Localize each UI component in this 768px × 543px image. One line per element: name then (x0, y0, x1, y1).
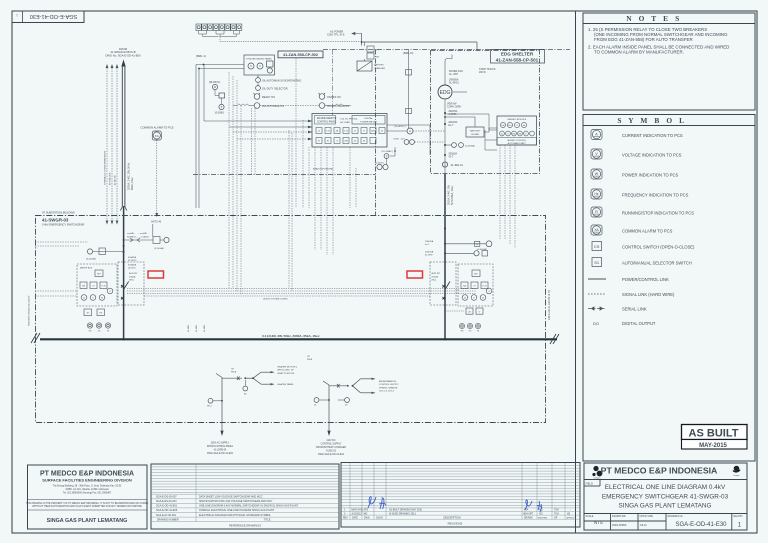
symbol legend: current indication A (591, 130, 602, 140)
svg-text:(NC): (NC) (432, 280, 437, 282)
svg-text:PR-1: PR-1 (207, 406, 213, 408)
svg-text:CHK'D VRW: CHK'D VRW (640, 515, 654, 518)
svg-text:T+N: T+N (344, 131, 348, 133)
EDG CT node 2 (444, 123, 446, 125)
svg-text:2000A: 2000A (432, 275, 439, 278)
incoming feeder arrow (121, 60, 125, 67)
svg-text:ON/OFF OS: ON/OFF OS (327, 96, 341, 99)
svg-text:BATTERY: BATTERY (374, 64, 384, 67)
svg-text:41-SWGR-03: 41-SWGR-03 (42, 217, 69, 222)
svg-text:230V AC SUPPLY: 230V AC SUPPLY (211, 442, 230, 445)
svg-text:←LOAD(T): ←LOAD(T) (139, 235, 149, 238)
svg-text:2000/5A: 2000/5A (449, 153, 458, 156)
svg-text:HYDRAULIC GUIDE PERMISSIVE: HYDRAULIC GUIDE PERMISSIVE (104, 150, 107, 185)
svg-text:(3-2000A): (3-2000A) (86, 258, 96, 261)
fuse F1 on panel feed (408, 50, 410, 128)
symbol legend: signal link dashed line (588, 293, 606, 295)
svg-text:ELECTRICAL ONE LINE DIAGRAM 0.: ELECTRICAL ONE LINE DIAGRAM 0.4kV (605, 484, 726, 491)
svg-text:METER BOX: METER BOX (80, 268, 93, 270)
bus cable tags (188, 324, 206, 332)
red markup box right (407, 271, 423, 278)
circuit 1 meter (243, 386, 248, 391)
heater load arrows (271, 371, 275, 373)
svg-text:SGA CMC3 SGA-E-OD-41-E07: SGA CMC3 SGA-E-OD-41-E07 (28, 295, 31, 326)
switch: edg auto/man os (319, 103, 325, 109)
svg-text:CS: CS (594, 244, 600, 249)
svg-text:EL-T: EL-T (449, 125, 455, 127)
svg-text:41-DB2: 41-DB2 (196, 324, 198, 332)
ACB B2 breaker (442, 282, 450, 340)
genset module (497, 116, 537, 145)
svg-text:IS-SUED DRAWING 2013: IS-SUED DRAWING 2013 (389, 512, 416, 515)
svg-text:(0-500K): (0-500K) (215, 113, 224, 115)
svg-text:SH: SH (376, 57, 379, 59)
svg-text:energies: energies (594, 478, 601, 480)
svg-text:600A/5A: 600A/5A (128, 256, 137, 259)
svg-text:SIGNAL LINK (HARD WIRE): SIGNAL LINK (HARD WIRE) (622, 292, 675, 297)
svg-text:CONTROL PANEL: CONTROL PANEL (317, 120, 337, 123)
bus end break marks (31, 333, 559, 344)
symbol legend: selector switch S1 (592, 258, 602, 267)
svg-text:GENSET CONTROL: GENSET CONTROL (507, 140, 527, 142)
svg-text:MV: MV (97, 274, 101, 276)
svg-text:ACI: ACI (539, 512, 543, 515)
svg-text:110V DC: 110V DC (326, 440, 335, 442)
svg-text:(0-3000A): (0-3000A) (465, 145, 475, 148)
svg-text:Hz: Hz (523, 125, 525, 127)
svg-text:· BATTERY ·: · BATTERY · (469, 130, 482, 133)
svg-text:MAY14-HD: MAY14-HD (352, 509, 364, 512)
svg-text:PT MEDCO E&P INDONESIA: PT MEDCO E&P INDONESIA (601, 465, 718, 475)
svg-text:41-SWGR-03 BUS-B: 41-SWGR-03 BUS-B (110, 50, 135, 54)
svg-text:AUTO/MAN START: AUTO/MAN START (508, 142, 527, 145)
svg-text:41-DB3: 41-DB3 (204, 324, 206, 332)
switch: ready os (254, 94, 260, 100)
svg-text:xxxkVA→: xxxkVA→ (127, 232, 136, 235)
svg-text:AUG2013: AUG2013 (352, 512, 363, 515)
svg-text:COMMON ALARM TO PCS: COMMON ALARM TO PCS (622, 229, 673, 234)
symbol legend: control switch CS (592, 242, 602, 251)
svg-text:M: M (87, 313, 89, 315)
svg-text:OP.: OP. (554, 517, 558, 519)
lemigas logo right (733, 466, 741, 473)
svg-text:E30-E-OD-41-E30 25 13 FS: E30-E-OD-41-E30 25 13 FS (548, 290, 551, 320)
panel CP-502 right boundary (375, 50, 377, 216)
svg-text:Tel. 021 29954000 (Hunting): Tel. 021 29954000 (Hunting) Fax. 021 299… (63, 492, 112, 495)
svg-text:SERIAL LINK: SERIAL LINK (622, 306, 647, 311)
svg-text:41-T: 41-T (449, 157, 454, 159)
svg-text:S Y M B O L: S Y M B O L (617, 116, 686, 125)
svg-text:Hz: Hz (595, 192, 599, 196)
svg-text:NTS: NTS (594, 520, 603, 525)
symbol legend: running/stop indication R (591, 207, 602, 217)
svg-text:COMMON ALARM TO PCS: COMMON ALARM TO PCS (141, 126, 174, 130)
svg-text:SGA-E-OD-41-E01: SGA-E-OD-41-E01 (156, 505, 178, 508)
ACB B2 metering cubicle (458, 264, 493, 306)
switchgear enclosure boundary (36, 216, 546, 423)
left margin reference labels (28, 295, 31, 326)
symbol legend: common alarm XA (591, 225, 602, 235)
svg-text:SGA-E-OD-41-E30: SGA-E-OD-41-E30 (30, 13, 78, 19)
ACB B2 CT (445, 252, 474, 254)
svg-text:W: W (482, 298, 484, 300)
svg-text:(DL-RSVC): (DL-RSVC) (395, 126, 406, 128)
svg-text:EMERGENCY SWITCHGEAR 41-SWGR-0: EMERGENCY SWITCHGEAR 41-SWGR-03 (602, 493, 729, 500)
svg-text:DRAWING NUMBER: DRAWING NUMBER (157, 518, 179, 521)
svg-text:XA: XA (155, 134, 159, 138)
ACB B1 breaker (121, 282, 129, 340)
svg-text:ANTI-COND. SP: ANTI-COND. SP (278, 369, 295, 372)
symbol legend: frequency indication Hz (591, 189, 602, 199)
svg-text:REV/SH: REV/SH (734, 515, 743, 518)
switch: on/off os (319, 94, 325, 100)
signal risers from panel to switchgear (229, 58, 356, 294)
svg-text:SGA-E-OD-41-E06: SGA-E-OD-41-E06 (156, 509, 178, 512)
svg-text:AIR APPARATUS: AIR APPARATUS (379, 380, 397, 383)
genset module wiring (445, 114, 497, 150)
panel lamp/relay row 2 (316, 138, 376, 144)
interlock signal wires (107, 68, 117, 220)
panel 502 label (278, 51, 323, 58)
svg-text:INTERLOCK: INTERLOCK (110, 172, 112, 185)
svg-text:TGH: TGH (554, 510, 559, 512)
svg-text:TN: TN (99, 313, 102, 315)
red markup box left (148, 271, 164, 278)
svg-text:TITLE: TITLE (264, 518, 271, 521)
svg-text:DRAWN: DRAWN (524, 516, 533, 519)
EDG CT node 1 (444, 112, 446, 114)
svg-text:41-BD-3B: 41-BD-3B (115, 175, 117, 185)
AS BUILT date box (682, 440, 748, 450)
svg-text:AUTO/MANUAL SELECTOR SWITCH: AUTO/MANUAL SELECTOR SWITCH (622, 261, 692, 266)
symbol legend: power indication W (591, 169, 602, 179)
svg-text:MV: MV (474, 274, 478, 276)
incoming feeder wire (double run) (120, 66, 127, 339)
svg-text:SGA-E-07-00-001: SGA-E-07-00-001 (156, 514, 177, 517)
svg-text:EDG SHELTER: EDG SHELTER (501, 52, 534, 57)
svg-text:W: W (101, 298, 103, 300)
generator circuit node 41-JRE-01 (442, 162, 447, 167)
wires into sync panel (196, 65, 244, 209)
panel CP-502 bottom boundary (193, 174, 376, 176)
svg-text:OVERALL ELECTRICAL ONE LINE DI: OVERALL ELECTRICAL ONE LINE DIAGRAM SING… (199, 509, 275, 512)
note 1 text (588, 27, 729, 55)
svg-text:DRAWING No: DRAWING No (668, 515, 684, 518)
svg-text:kW: kW (502, 125, 505, 127)
EDG meter branch (452, 143, 457, 148)
genset battery case (466, 127, 484, 137)
svg-text:HOTC 40: HOTC 40 (151, 221, 162, 224)
svg-text:AT SUBSTATION BUILDING: AT SUBSTATION BUILDING (42, 210, 75, 214)
svg-text:VOLTAGE INDICATION TO PCS: VOLTAGE INDICATION TO PCS (622, 153, 682, 158)
svg-text:(DL-DRAC): (DL-DRAC) (382, 150, 393, 153)
svg-text:COM, TPL, SYS: COM, TPL, SYS (327, 34, 345, 37)
bus 0.4kV main busbar (40, 338, 557, 340)
blue approval signatures (368, 497, 542, 512)
svg-text:41-DB1: 41-DB1 (188, 324, 190, 332)
interconnection signal mesh (127, 289, 476, 297)
svg-text:↓: ↓ (16, 12, 19, 18)
svg-text:DO: DO (593, 321, 599, 326)
svg-text:APS: APS (364, 509, 369, 512)
svg-text:AL, 3PH: AL, 3PH (449, 73, 458, 76)
svg-text:41-BC-03: 41-BC-03 (326, 451, 337, 453)
spare aux boxes (84, 309, 105, 316)
svg-text:FROM BATTERY CHARGER: FROM BATTERY CHARGER (316, 446, 346, 449)
panel lamp/relay row 1 (316, 128, 385, 134)
svg-text:R: R (595, 210, 598, 214)
svg-text:DWG.SGA-E-OD-41-E04: DWG.SGA-E-OD-41-E04 (318, 453, 345, 456)
circuit 2 source label (316, 440, 346, 456)
svg-text:COPH, 50PA: COPH, 50PA (447, 106, 461, 109)
svg-text:REV: REV (343, 517, 348, 519)
EDG feeder wire into switchgear (444, 174, 446, 339)
svg-text:SINGA GAS PLANT LEMATANG: SINGA GAS PLANT LEMATANG (618, 502, 711, 509)
svg-text:SPECIFICATION FOR LOW VOLTAGE: SPECIFICATION FOR LOW VOLTAGE SWITCHGEAR… (199, 500, 273, 503)
panel boundary dash-dot (323, 50, 570, 116)
battery charger fuses (367, 46, 374, 59)
svg-text:0.4 kV,3Ø, 3W, 50Hz, 2000A, 65: 0.4 kV,3Ø, 3W, 50Hz, 2000A, 65kA, 1Sec (262, 334, 320, 338)
svg-text:AS BUILT: AS BUILT (689, 427, 739, 439)
medco logo left (592, 466, 602, 477)
svg-text:The Energy Building, 28 - 30th: The Energy Building, 28 - 30th Floor, Jl… (53, 485, 122, 488)
svg-text:41-5F/50: 41-5F/50 (128, 260, 137, 262)
svg-text:DRAWN WD: DRAWN WD (612, 515, 626, 518)
svg-text:START HOLD'R: START HOLD'R (479, 68, 496, 71)
svg-text:MAY-2015: MAY-2015 (699, 443, 727, 449)
svg-text:T+B: T+B (326, 131, 330, 133)
terminal strip bracket wires (199, 31, 240, 42)
svg-text:GENSET MODULE: GENSET MODULE (507, 119, 526, 121)
svg-text:WITHOUT THEIR AUTHORIZATION AN: WITHOUT THEIR AUTHORIZATION AND IN ANY E… (32, 505, 142, 508)
svg-text:SINGA GAS PLANT LEMATANG: SINGA GAS PLANT LEMATANG (47, 518, 128, 524)
svg-text:(NO): (NO) (129, 280, 134, 282)
EDG generator (438, 85, 452, 99)
svg-text:THIS DRAWING IS THE PROPERTY O: THIS DRAWING IS THE PROPERTY OF PT MEDCO… (26, 502, 149, 505)
svg-text:1: 1 (738, 522, 742, 529)
svg-text:50Hz 65kA, 1Sec: 50Hz 65kA, 1Sec (451, 185, 454, 205)
svg-text:PN-B: PN-B (231, 372, 237, 374)
svg-text:CP: CP (231, 369, 235, 371)
left title block frame (28, 465, 148, 529)
svg-text:(MI-RSVC): (MI-RSVC) (209, 82, 220, 84)
ACB B2 ammeter branch (445, 243, 486, 245)
svg-text:(BML 1): (BML 1) (196, 54, 206, 58)
svg-text:ACB 'B1': ACB 'B1' (129, 272, 138, 275)
AS BUILT stamp (682, 425, 748, 440)
svg-text:RUNNING/STOP INDICATION TO PCS: RUNNING/STOP INDICATION TO PCS (622, 211, 694, 216)
circuit 1 source label (207, 442, 234, 456)
svg-text:ELECTRICAL DIAGRAM AND PHYSICA: ELECTRICAL DIAGRAM AND PHYSICAL STANDARD… (199, 514, 271, 517)
reference drawings table (151, 464, 339, 529)
svg-text:F+N: F+N (483, 286, 487, 288)
panel internal meter A (407, 128, 413, 134)
svg-text:M: M (214, 86, 216, 89)
svg-text:ENGINE REMOTE: ENGINE REMOTE (317, 118, 337, 120)
switch: oil auto/man os (254, 103, 260, 109)
circuit 2 incoming arrow (327, 431, 330, 437)
ACB B1 cubicle (118, 262, 144, 305)
svg-text:41-5FN: 41-5FN (425, 255, 433, 257)
signal wire from terminal strip to panels (220, 41, 360, 43)
svg-text:POWER METER: POWER METER (360, 121, 377, 123)
spare aux boxes B2 (466, 308, 483, 314)
svg-text:JUL10: JUL10 (640, 524, 648, 527)
svg-text:CONTROL SUPPLY: CONTROL SUPPLY (379, 384, 399, 386)
svg-text:WD: WD (364, 513, 368, 515)
genset signal risers (500, 145, 515, 248)
indication lamps B1 (87, 323, 110, 328)
ACB B1 CT (93, 251, 124, 253)
svg-text:CONTROL SUPPLY: CONTROL SUPPLY (321, 444, 342, 446)
svg-text:SGA-E-ES-00-003: SGA-E-ES-00-003 (156, 500, 177, 503)
left margin signal stubs (35, 242, 88, 296)
svg-text:SPRING CHARGE: SPRING CHARGE (379, 386, 398, 389)
svg-text:CHARGER: CHARGER (374, 67, 385, 70)
svg-text:FREQUENCY INDICATION TO PCS: FREQUENCY INDICATION TO PCS (622, 193, 689, 198)
svg-text:SURFACE FACILITIES ENGINEERING: SURFACE FACILITIES ENGINEERING DIVISION (42, 478, 132, 483)
svg-text:ONE LINE DIAGRAM 0.4KV NORMAL: ONE LINE DIAGRAM 0.4KV NORMAL SWITCHGEAR… (199, 505, 299, 508)
NOTES panel box (583, 13, 755, 110)
ACB B2 node dots (444, 228, 446, 230)
engine remote control panel (312, 114, 387, 148)
selector switch: duty selector (256, 86, 261, 91)
ACB B1 closed/open switches (124, 238, 153, 242)
svg-text:SGA-E-DS-00-007: SGA-E-DS-00-007 (156, 495, 177, 498)
svg-text:CHGRE: CHGRE (471, 134, 479, 136)
svg-text:POWER INDICATION TO PCS: POWER INDICATION TO PCS (622, 173, 678, 178)
svg-text:←xxxkVA: ←xxxkVA (138, 232, 147, 235)
EDG shelter label (491, 50, 545, 64)
title block fields (586, 515, 743, 527)
svg-text:SGA-E-OD-41-E30: SGA-E-OD-41-E30 (675, 522, 727, 528)
svg-text:F+N: F+N (102, 286, 106, 288)
digital power meter (352, 116, 385, 125)
svg-text:ENG'RING: ENG'RING (538, 518, 548, 520)
svg-text:600A/5A: 600A/5A (128, 264, 137, 267)
svg-text:lemigas: lemigas (733, 475, 739, 477)
svg-text:APPRVD: APPRVD (567, 517, 575, 520)
svg-text:200 W: 200 W (479, 72, 486, 74)
symbol legend: power/control link solid line (588, 278, 606, 280)
svg-text:A: A (409, 129, 411, 133)
symbol legend: serial link (588, 307, 606, 310)
EDG CT node 3 (444, 154, 446, 156)
B1 lamp tags (89, 331, 110, 333)
svg-text:kW, kVAR: kW, kVAR (340, 121, 350, 124)
panel internal selector (404, 140, 409, 145)
svg-text:200A/5A: 200A/5A (449, 121, 458, 124)
svg-text:(BML D): (BML D) (403, 51, 413, 55)
svg-text:REVISIONS: REVISIONS (448, 522, 463, 526)
svg-text:W: W (595, 172, 599, 176)
selector switch: auto/man synchronizing (256, 78, 261, 83)
svg-text:SYNCHRONIZING PANEL: SYNCHRONIZING PANEL (246, 58, 273, 61)
svg-text:DWG No. SGA-E-OD-41-E06: DWG No. SGA-E-OD-41-E06 (105, 54, 141, 58)
ACB B2 cubicle (430, 262, 456, 305)
svg-text:DESCRIPTION: DESCRIPTION (443, 516, 460, 519)
ACB B1 metering cubicle (77, 264, 117, 306)
svg-text:FROM: FROM (119, 47, 128, 51)
svg-text:41-ZAN-558-CP-501: 41-ZAN-558-CP-501 (496, 58, 539, 63)
wires into remote panel (204, 65, 312, 122)
svg-text:A,5F/51: A,5F/51 (449, 113, 458, 116)
svg-text:V, A, Hz, PF, kWh,: V, A, Hz, PF, kWh, (340, 118, 358, 121)
svg-text:2000/5A: 2000/5A (425, 251, 434, 254)
svg-text:41-LDPE-04: 41-LDPE-04 (214, 450, 227, 452)
svg-text:READY OS: READY OS (262, 96, 275, 99)
synchronizing panel (244, 55, 275, 75)
wire com to EDG shelter (362, 34, 478, 51)
svg-text:KOM→12V: KOM→12V (394, 139, 406, 141)
right column divider (575, 11, 577, 533)
EDG shelter boundary (431, 51, 540, 174)
svg-text:TO COMMON ALARM BY MANUFACTURE: TO COMMON ALARM BY MANUFACTURER. (594, 50, 684, 55)
bus junction dots (122, 338, 124, 340)
svg-text:CP: CP (307, 356, 311, 358)
svg-text:POWER/CONTROL LINK: POWER/CONTROL LINK (622, 277, 669, 282)
svg-text:FROM EDG 41-ZAN-558) FOR AUTO: FROM EDG 41-ZAN-558) FOR AUTO TRANSFER (594, 37, 693, 42)
svg-text:N O T E S: N O T E S (626, 14, 682, 23)
wire HOTC to permissive relay (152, 224, 154, 237)
svg-text:ETA: ETA (524, 509, 529, 512)
svg-text:41-ZAN-558-CP-502: 41-ZAN-558-CP-502 (283, 53, 318, 57)
terminal strip 41-TB (196, 24, 242, 31)
indication lamps B2 (459, 323, 480, 328)
ACB B1 node dots (123, 239, 125, 241)
svg-text:DIGITAL OUTPUT: DIGITAL OUTPUT (622, 321, 656, 326)
incoming feeder label (105, 47, 141, 58)
svg-text:200A/5A: 200A/5A (449, 110, 458, 113)
svg-text:HEAT POSITION: HEAT POSITION (278, 372, 295, 375)
svg-text:HEATER PANEL: HEATER PANEL (278, 383, 295, 386)
svg-text:ENA/STOP ENGINE: ENA/STOP ENGINE (313, 168, 334, 171)
top-left drawing number reference box (12, 11, 84, 23)
drawing title text (602, 484, 729, 510)
svg-text:SCALE: SCALE (586, 515, 594, 518)
svg-text:OIL AUTO/MAN SYNCHRONIZING: OIL AUTO/MAN SYNCHRONIZING (262, 80, 301, 83)
svg-text:HEATER MOTOR &: HEATER MOTOR & (278, 366, 298, 369)
right title block frame (584, 463, 747, 530)
circuit 1 incoming arrow (220, 431, 223, 437)
svg-text:EDG: EDG (440, 90, 451, 96)
svg-text:DWN: DWN (364, 517, 370, 519)
svg-text:OIL DUTY SELECTOR: OIL DUTY SELECTOR (262, 88, 288, 91)
svg-text:JB-PN TO INTERLOCKING: JB-PN TO INTERLOCKING (263, 299, 288, 301)
EDG start stack wires (445, 55, 467, 209)
svg-text:HDA-OPT: HDA-OPT (523, 512, 534, 515)
svg-text:NORM(T)→: NORM(T)→ (127, 236, 138, 238)
svg-text:CURRENT INDICATION TO PCS: CURRENT INDICATION TO PCS (622, 133, 683, 138)
svg-text:FIELD: FIELD (586, 482, 593, 486)
svg-text:REFERENCE DRAWINGS: REFERENCE DRAWINGS (229, 523, 261, 527)
svg-text:DATE APR05: DATE APR05 (612, 524, 627, 527)
svg-text:DIGITAL: DIGITAL (364, 117, 373, 120)
svg-text:DATE: DATE (352, 516, 358, 519)
circuit 1 source meter (208, 398, 213, 403)
svg-text:CHK'D: CHK'D (376, 517, 383, 519)
battery charger U1 (357, 61, 372, 71)
circuit 2 meters (314, 398, 319, 403)
svg-text:CONTROL SWITCH (OPEN-O-CLOSE): CONTROL SWITCH (OPEN-O-CLOSE) (622, 245, 695, 250)
svg-text:(3-1000A): (3-1000A) (154, 247, 164, 250)
svg-text:SCBD, Lot 11A, Jakarta, 12190,: SCBD, Lot 11A, Jakarta, 12190, Indonesia (65, 488, 109, 491)
svg-text:PN-B: PN-B (307, 359, 313, 361)
svg-text:0.4kV EMERGENCY SWITCHGEAR: 0.4kV EMERGENCY SWITCHGEAR (42, 223, 84, 227)
svg-text:AL-5F/51: AL-5F/51 (449, 82, 460, 85)
svg-text:S1: S1 (594, 260, 600, 265)
svg-text:PT MEDCO E&P INDONESIA: PT MEDCO E&P INDONESIA (40, 471, 134, 478)
